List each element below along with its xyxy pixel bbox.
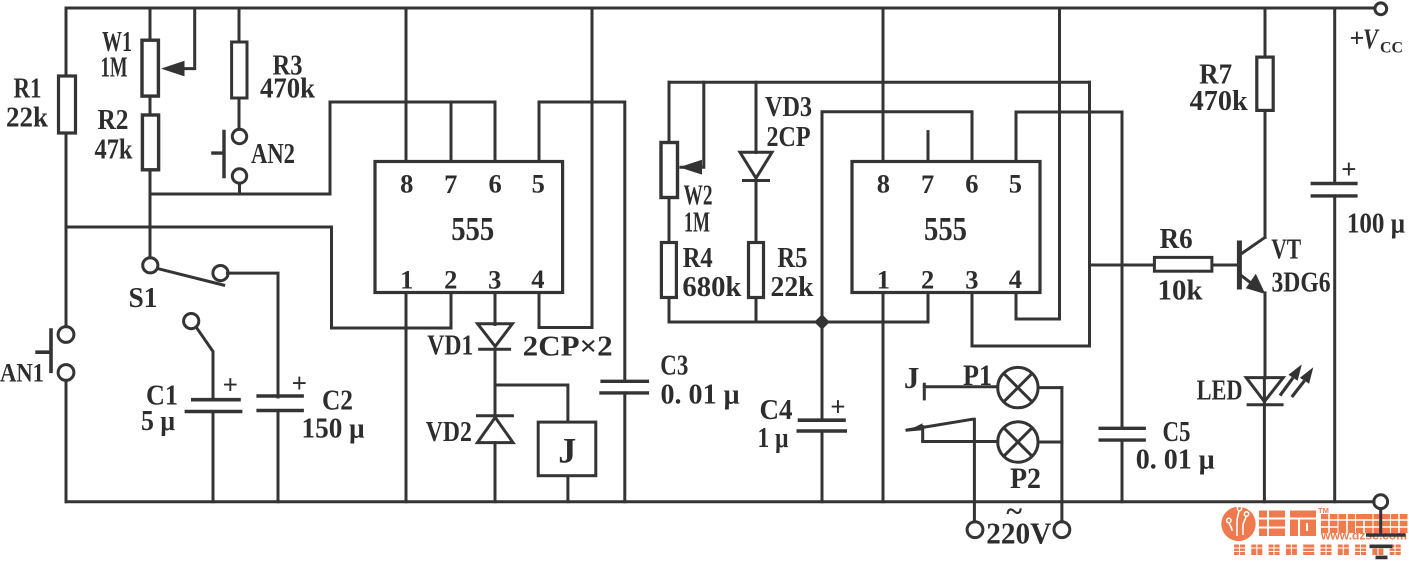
relay J movable arm xyxy=(907,419,972,430)
svg-text:AN1: AN1 xyxy=(0,359,44,388)
terminal AC right xyxy=(1054,522,1070,538)
svg-text:C5: C5 xyxy=(1163,417,1191,448)
switch S1 blade xyxy=(158,269,226,286)
terminal AC left xyxy=(967,522,983,538)
diode VD1 xyxy=(478,324,513,350)
svg-text:VD1: VD1 xyxy=(427,331,473,362)
pushbutton AN1 actuator xyxy=(35,328,51,373)
svg-text:7: 7 xyxy=(444,169,457,199)
wire U1 pin3 to VD1 xyxy=(494,293,497,325)
svg-text:VT: VT xyxy=(1271,235,1301,266)
LED triangle xyxy=(1246,378,1283,405)
svg-text:VD2: VD2 xyxy=(426,417,472,448)
wire R6 left xyxy=(1090,264,1155,267)
svg-text:P1: P1 xyxy=(963,359,992,392)
wire W1 wiper to rail xyxy=(182,8,195,69)
transistor VT collector stroke xyxy=(1241,237,1266,254)
capacitor C3 plates xyxy=(599,381,649,393)
svg-text:C2: C2 xyxy=(322,386,353,417)
capacitor C4 plates xyxy=(797,420,848,431)
resistor R7 xyxy=(1257,57,1273,110)
svg-text:22k: 22k xyxy=(771,272,814,303)
wire top +Vcc rail xyxy=(66,7,1375,10)
svg-text:680k: 680k xyxy=(682,272,741,303)
diode VD3 xyxy=(740,152,772,180)
wire R4 bottom xyxy=(668,298,671,323)
svg-text:0. 01 μ: 0. 01 μ xyxy=(661,380,740,411)
svg-text:2CP×2: 2CP×2 xyxy=(523,332,613,363)
svg-text:2: 2 xyxy=(444,265,457,295)
wire R6 right to VT base xyxy=(1212,264,1238,267)
wire W2 to R4 xyxy=(668,198,671,243)
svg-text:1M: 1M xyxy=(101,53,128,84)
LED light arrow 1 xyxy=(1280,364,1302,395)
transistor VT emitter stroke xyxy=(1241,275,1262,291)
resistor R4 xyxy=(661,243,676,298)
wire U1 pin8 to rail xyxy=(405,8,408,162)
wire lamp P1 right xyxy=(1038,386,1062,389)
wire bottom ground rail xyxy=(66,500,1374,503)
svg-text:R1: R1 xyxy=(14,74,42,105)
svg-text:2CP: 2CP xyxy=(767,122,811,153)
wire S1 lower throw to C1 xyxy=(196,327,213,398)
wire lamp node to AC terminal right xyxy=(1060,388,1063,522)
wire C3 to ground rail xyxy=(623,393,626,502)
wire R1R2 node to U1 pin2 xyxy=(332,227,452,328)
resistor R5 xyxy=(749,243,764,298)
watermark slogan (fake glyph blocks) xyxy=(1234,545,1401,556)
wire R3 to AN2 xyxy=(238,98,241,129)
wire timing node horizontal to U2 pin2 xyxy=(669,293,928,323)
potentiometer W1 body xyxy=(142,40,158,96)
wire AN2 node to 555 U1 pins 7,6 xyxy=(150,102,495,194)
svg-text:VD3: VD3 xyxy=(765,92,812,123)
svg-text:0. 01 μ: 0. 01 μ xyxy=(1136,445,1215,476)
potentiometer W2 wiper arrow xyxy=(679,160,702,175)
capacitor C1 plates xyxy=(185,400,243,412)
wire R5 bottom xyxy=(755,298,758,323)
wire VD2 to ground rail xyxy=(494,443,497,502)
junction dot timing node xyxy=(814,314,830,330)
svg-text:2: 2 xyxy=(921,265,934,295)
wire node R1/R2 horizontal xyxy=(66,226,332,229)
wire R1 top (rail to R1) xyxy=(65,8,68,76)
svg-text:4: 4 xyxy=(1009,264,1022,294)
wire U1 pin4 to rail xyxy=(539,8,592,328)
svg-text:22k: 22k xyxy=(6,103,48,134)
wire AN2 bottom drop xyxy=(238,183,241,194)
wire J coil to ground rail xyxy=(566,476,569,502)
lamp P1 xyxy=(998,367,1038,407)
wire lamp P2 right xyxy=(1038,441,1062,444)
svg-text:47k: 47k xyxy=(95,135,133,166)
relay coil J box xyxy=(538,422,596,476)
svg-text:LED: LED xyxy=(1197,376,1243,407)
wire W1 to R2 xyxy=(149,96,152,115)
wire W2 wiper from top net xyxy=(681,82,704,167)
wire U1 pin5 to C3 xyxy=(539,102,625,381)
svg-text:8: 8 xyxy=(400,169,413,199)
svg-text:470k: 470k xyxy=(1190,86,1248,117)
switch S1 pole contact xyxy=(143,258,158,273)
svg-text:5: 5 xyxy=(1009,169,1022,199)
wire U1 pin7 drop xyxy=(450,102,453,162)
wire R3 top (rail to R3) xyxy=(238,8,241,42)
wire timing net top horizontal (W2/VD3 to feedback) xyxy=(669,81,1090,84)
wire R7 to VT collector xyxy=(1264,110,1267,237)
wire C2 to ground rail xyxy=(277,411,280,502)
wire W2 top xyxy=(668,82,671,142)
wire U2 pin4 to rail xyxy=(1016,8,1060,319)
wire VD node to relay coil J xyxy=(495,385,568,422)
svg-text:+: + xyxy=(830,392,845,422)
svg-text:S1: S1 xyxy=(129,283,158,314)
resistor R6 xyxy=(1154,257,1212,271)
ground symbol xyxy=(1366,535,1406,557)
transistor VT base bar xyxy=(1237,241,1242,290)
wire AN1 to ground rail xyxy=(65,380,68,501)
watermark text weiku (fake glyph blocks) xyxy=(1259,511,1316,537)
svg-text:C4: C4 xyxy=(760,395,793,426)
switch S1 upper throw contact xyxy=(213,266,228,281)
svg-text:7: 7 xyxy=(921,169,934,199)
svg-text:C3: C3 xyxy=(660,351,688,382)
wire U1 pin1 to ground rail xyxy=(405,293,408,502)
svg-text:1: 1 xyxy=(877,265,890,295)
wire U2 pin1 to ground rail xyxy=(882,293,885,502)
svg-text:555: 555 xyxy=(451,211,494,248)
wire U1 pin6 drop xyxy=(494,102,497,162)
wire ground terminal drop xyxy=(1379,509,1382,535)
wire LED to ground rail xyxy=(1263,378,1266,502)
switch S1 lower throw contact xyxy=(184,314,199,329)
svg-text:4: 4 xyxy=(531,264,544,294)
wire U2 pin5 to C5 xyxy=(1016,112,1122,428)
svg-text:10k: 10k xyxy=(1158,276,1203,307)
svg-text:V: V xyxy=(1363,25,1380,56)
wire W1 top (rail to W1) xyxy=(149,8,152,40)
diode VD2 xyxy=(476,416,514,443)
pushbutton AN2 contacts xyxy=(232,129,246,143)
svg-text:3: 3 xyxy=(488,265,501,295)
svg-text:+: + xyxy=(292,368,307,398)
wire C4 to ground rail xyxy=(821,431,824,502)
svg-text:100 μ: 100 μ xyxy=(1347,209,1405,240)
svg-text:3DG6: 3DG6 xyxy=(1272,268,1331,299)
svg-text:CC: CC xyxy=(1380,40,1403,57)
svg-text:J: J xyxy=(904,360,920,395)
wire R2 bottom to S1 pole xyxy=(149,170,152,258)
svg-text:+: + xyxy=(223,370,238,400)
svg-text:8: 8 xyxy=(877,169,890,199)
svg-text:5: 5 xyxy=(532,169,545,199)
svg-text:1M: 1M xyxy=(684,208,710,239)
wire 100u cap top xyxy=(1333,8,1336,184)
pushbutton AN1 contacts xyxy=(58,327,74,343)
wire VT emitter to LED xyxy=(1264,293,1267,378)
svg-text:3: 3 xyxy=(965,265,978,295)
lamp P2 xyxy=(998,422,1038,462)
svg-text:+: + xyxy=(1341,154,1356,184)
wire relay contact fixed P1 bracket xyxy=(923,384,926,399)
resistor R2 xyxy=(142,115,158,170)
wire timing node to U2 pin6 xyxy=(822,112,972,420)
svg-text:470k: 470k xyxy=(260,74,315,105)
watermark logo circle xyxy=(1221,506,1255,541)
svg-text:J: J xyxy=(558,431,576,471)
resistor R1 xyxy=(59,76,76,133)
wire U2 pin8 to rail xyxy=(882,8,885,162)
wire VD3 top xyxy=(755,82,758,152)
wire 100u cap bottom xyxy=(1333,196,1336,502)
wire arm common to AC terminal left xyxy=(973,419,976,522)
watermark text dianzishichangwang (fake glyph blocks) xyxy=(1321,514,1408,533)
resistor R3 xyxy=(232,42,247,98)
svg-text:1 μ: 1 μ xyxy=(758,423,789,454)
svg-text:6: 6 xyxy=(488,169,501,199)
wire VD1 to VD2 xyxy=(494,349,497,416)
relay arm left bracket xyxy=(921,427,924,442)
capacitor 100u plates xyxy=(1311,184,1358,196)
capacitor C2 plates xyxy=(256,396,304,411)
svg-text:R6: R6 xyxy=(1160,224,1193,255)
terminal ground output xyxy=(1374,495,1388,509)
wire R7 top xyxy=(1264,8,1267,57)
svg-text:R2: R2 xyxy=(98,105,129,136)
pushbutton AN2 actuator xyxy=(211,130,224,179)
svg-text:AN2: AN2 xyxy=(251,139,295,170)
wire fixed contact to lamp P1 xyxy=(924,385,997,388)
potentiometer W1 wiper arrow xyxy=(161,61,185,77)
svg-text:TM: TM xyxy=(1318,506,1329,515)
svg-text:555: 555 xyxy=(924,211,967,248)
LED light arrow 2 xyxy=(1292,367,1314,397)
svg-text:R4: R4 xyxy=(683,243,713,274)
op chip U1 555 body xyxy=(375,162,563,293)
transistor VT emitter arrowhead xyxy=(1246,274,1266,294)
potentiometer W2 body xyxy=(661,143,678,198)
wire U2 pin7 stub xyxy=(927,132,930,162)
op chip U2 555 body xyxy=(852,162,1040,293)
svg-text:150 μ: 150 μ xyxy=(302,414,365,445)
svg-text:R5: R5 xyxy=(777,243,807,274)
terminal +Vcc xyxy=(1375,3,1387,15)
svg-text:6: 6 xyxy=(965,169,978,199)
svg-text:5 μ: 5 μ xyxy=(141,406,175,437)
wire C5 to ground rail xyxy=(1121,440,1124,502)
wire VD3 to R5 xyxy=(755,180,758,242)
wire U2 pin3 to feedback riser xyxy=(972,82,1090,346)
wire arm bracket to lamp P2 xyxy=(923,440,998,443)
svg-text:P2: P2 xyxy=(1010,462,1041,495)
capacitor C5 plates xyxy=(1099,428,1146,440)
wire R1 bottom to AN1 xyxy=(65,133,68,327)
svg-text:220V: 220V xyxy=(986,516,1052,551)
svg-text:1: 1 xyxy=(400,265,413,295)
wire C1 to ground rail xyxy=(212,412,215,502)
wire S1 throw to C2 xyxy=(227,273,278,397)
